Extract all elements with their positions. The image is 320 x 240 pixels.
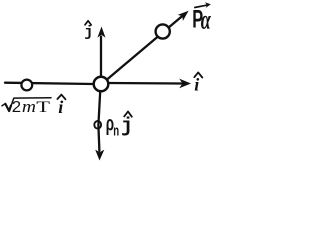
label: vector arrow over P-alpha [195, 5, 207, 7]
svg-text:j: j [84, 24, 93, 41]
wire: vertical axis upper segment (j-hat axis) [100, 37, 102, 78]
node: small circle on lower segment [94, 121, 101, 129]
wire: diagonal momentum line [107, 16, 182, 79]
node: small circle on left segment [21, 80, 32, 91]
arrowhead of lower axis (down) [95, 150, 104, 161]
node: origin circle [94, 77, 109, 92]
arrowhead of diagonal (up-right) [178, 11, 189, 21]
wire: right horizontal axis segment (i-hat axis) [109, 82, 182, 85]
svg-text:i: i [58, 97, 63, 117]
svg-text:j: j [121, 116, 133, 139]
arrowhead of i-hat axis [179, 79, 191, 89]
svg-text:n: n [113, 122, 119, 139]
label: i-hat (after sqrt) : hat [57, 95, 65, 100]
label: j-hat (top) : hat [85, 21, 91, 25]
svg-text:m: m [22, 97, 36, 116]
label: i-hat (right axis) : hat [194, 72, 202, 77]
node: particle circle on diagonal [156, 24, 170, 38]
label: radical sign of sqrt(2mT) [2, 98, 51, 111]
wire: left horizontal axis segment [5, 83, 93, 84]
svg-text:i: i [194, 74, 199, 94]
svg-text:α: α [201, 5, 211, 34]
svg-text:T: T [36, 99, 50, 116]
svg-text:2: 2 [12, 98, 21, 116]
label: j-hat (bottom) : hat [124, 112, 132, 117]
wire: vertical axis lower segment [98, 92, 100, 152]
arrowhead of j-hat axis (up) [97, 27, 105, 38]
